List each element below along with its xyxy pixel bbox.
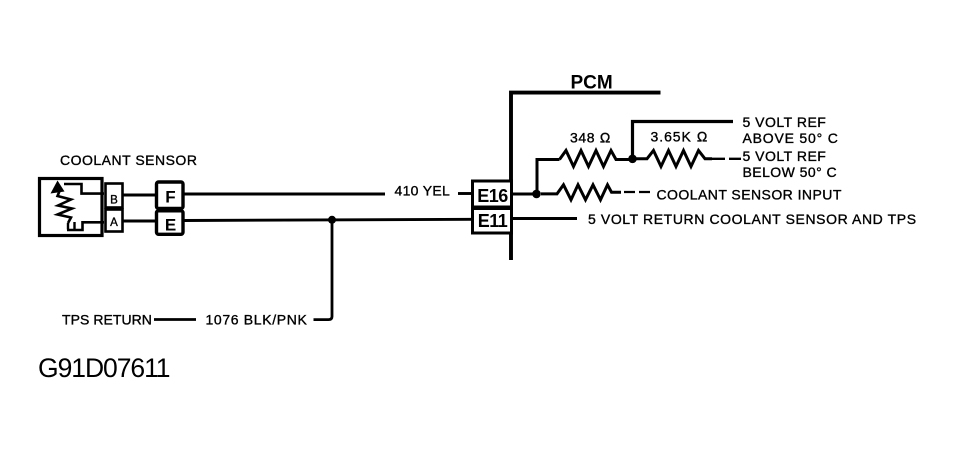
wire E11 to label	[513, 217, 577, 220]
junction on return wire	[328, 216, 336, 224]
svg-text:COOLANT SENSOR INPUT: COOLANT SENSOR INPUT	[657, 186, 842, 202]
connector F	[157, 182, 184, 209]
svg-text:F: F	[165, 188, 175, 207]
svg-text:TPS RETURN: TPS RETURN	[62, 312, 152, 328]
svg-text:3.65K Ω: 3.65K Ω	[651, 129, 709, 145]
wire TPS branch (down and corner left)	[314, 220, 333, 320]
resistor coolant sensor input	[541, 185, 621, 200]
thermistor arrow	[51, 181, 65, 194]
svg-text:B: B	[110, 195, 118, 207]
resistor 3.65K ohm	[634, 151, 712, 167]
junction node between resistors	[628, 155, 637, 164]
thermistor bottom hook	[68, 222, 75, 230]
terminal E11	[473, 209, 512, 234]
wire between TPS RETURN and 1076 BLK/PNK	[154, 318, 196, 321]
svg-text:PCM: PCM	[571, 73, 613, 94]
terminal E16	[473, 181, 512, 207]
svg-text:5 VOLT RETURN COOLANT SENSOR A: 5 VOLT RETURN COOLANT SENSOR AND TPS	[588, 211, 917, 227]
sensor internal wire top (to pin B)	[64, 184, 104, 194]
pin A	[106, 210, 123, 232]
wire F to 410 YEL label	[184, 193, 385, 196]
svg-text:348 Ω: 348 Ω	[570, 130, 611, 146]
svg-text:E11: E11	[478, 211, 508, 231]
thermistor zigzag element	[58, 190, 73, 223]
wire 410 YEL to E16	[458, 192, 473, 195]
svg-text:COOLANT SENSOR: COOLANT SENSOR	[60, 152, 197, 168]
wire stub to COOLANT SENSOR INPUT label	[624, 191, 652, 193]
svg-text:410 YEL: 410 YEL	[395, 183, 451, 199]
wire up to 5 VOLT REF ABOVE	[633, 122, 734, 160]
wire B to F	[123, 194, 157, 197]
svg-text:G91D07611: G91D07611	[38, 353, 170, 383]
svg-text:BELOW 50° C: BELOW 50° C	[743, 164, 838, 180]
svg-text:5 VOLT REF: 5 VOLT REF	[743, 148, 827, 164]
PCM boundary corner	[511, 93, 661, 260]
pin B	[106, 184, 123, 208]
resistor 348 ohm	[560, 151, 632, 167]
wire E16 to junction node	[512, 193, 538, 196]
connector E	[157, 211, 184, 235]
svg-text:5 VOLT REF: 5 VOLT REF	[743, 114, 827, 130]
wire E to E11 (return wire)	[184, 219, 473, 220]
svg-text:E16: E16	[477, 186, 508, 206]
svg-text:A: A	[110, 217, 118, 229]
wire up from junction to resistor 348	[537, 160, 560, 195]
wire stub to 5 VOLT REF BELOW	[712, 158, 741, 160]
svg-text:E: E	[165, 216, 176, 235]
sensor internal wire bottom (to pin A)	[67, 222, 104, 230]
coolant sensor (thermistor) outer box	[40, 179, 103, 236]
svg-text:ABOVE 50° C: ABOVE 50° C	[743, 130, 839, 146]
wire A to E	[123, 220, 157, 223]
junction node at E16	[532, 190, 541, 199]
svg-text:1076 BLK/PNK: 1076 BLK/PNK	[206, 312, 308, 328]
